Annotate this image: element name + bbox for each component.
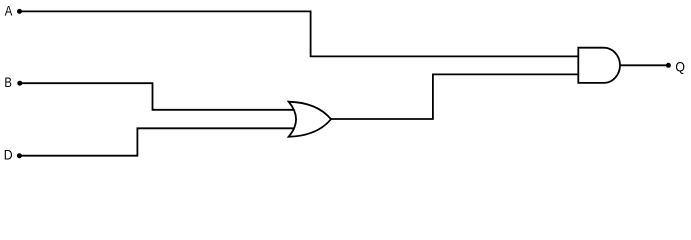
- svg-text:Q: Q: [675, 59, 685, 75]
- wire A to AND gate input 1: [20, 11, 579, 56]
- wire OR output to AND gate input 2: [331, 74, 578, 119]
- wire B to OR gate input 1: [20, 83, 297, 110]
- svg-text:B: B: [4, 74, 12, 91]
- wire AND output to Q: [620, 64, 668, 66]
- svg-text:D: D: [4, 147, 13, 163]
- node Q terminal dot: [666, 63, 671, 68]
- node D terminal dot: [17, 153, 22, 158]
- or-gate U1 (inputs B,D): [289, 102, 331, 137]
- node A terminal dot: [17, 9, 22, 14]
- node B terminal dot: [17, 81, 22, 86]
- and-gate U2 (inputs A, OR output): [578, 48, 620, 83]
- svg-text:A: A: [5, 2, 13, 19]
- wire D to OR gate input 2: [19, 128, 297, 155]
